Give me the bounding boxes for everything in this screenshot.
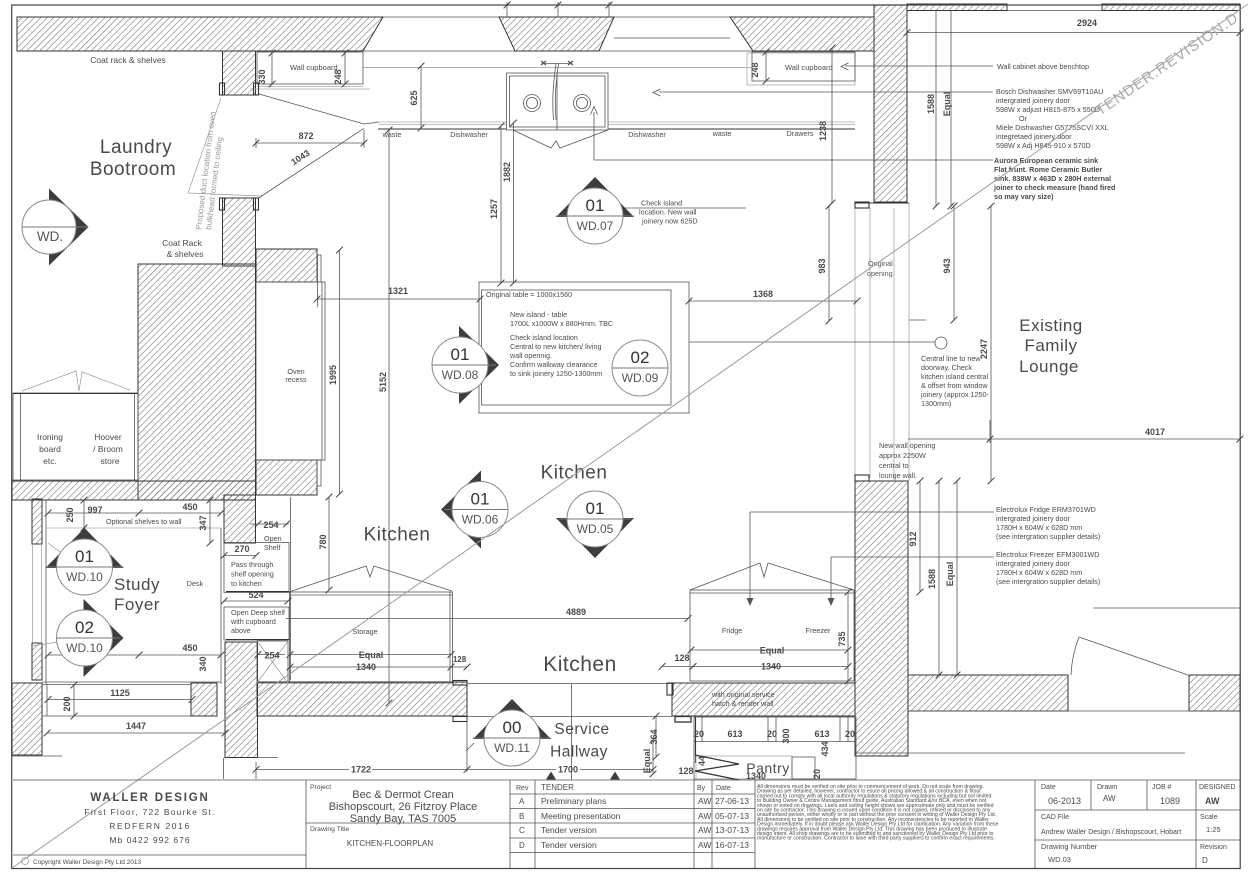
svg-text:Family: Family	[1024, 336, 1077, 355]
svg-text:WD.09: WD.09	[622, 371, 659, 385]
svg-text:248: 248	[333, 69, 343, 84]
svg-text:598W x Adj H845-910 x 570D: 598W x Adj H845-910 x 570D	[996, 141, 1091, 150]
svg-text:434: 434	[820, 741, 830, 756]
svg-text:Wall cabinet above benchtop: Wall cabinet above benchtop	[997, 62, 1089, 71]
svg-text:Meeting presentation: Meeting presentation	[541, 811, 621, 821]
svg-text:Equal: Equal	[760, 646, 785, 656]
svg-text:1300mm): 1300mm)	[921, 399, 951, 408]
svg-text:Pass through: Pass through	[231, 560, 273, 569]
svg-text:1447: 1447	[126, 721, 146, 731]
svg-text:330: 330	[257, 69, 267, 84]
svg-text:128: 128	[674, 653, 689, 663]
svg-text:997: 997	[87, 505, 102, 515]
svg-text:WD.11: WD.11	[494, 741, 530, 755]
svg-text:to sink joinery 1250-1300mm: to sink joinery 1250-1300mm	[510, 369, 602, 378]
svg-text:300: 300	[781, 728, 791, 743]
svg-text:20: 20	[694, 729, 704, 739]
svg-text:Drawn: Drawn	[1097, 784, 1117, 791]
svg-text:hatch & render wall: hatch & render wall	[712, 699, 774, 708]
svg-text:Service: Service	[554, 721, 609, 738]
svg-text:(see intergration supplier det: (see intergration supplier details)	[996, 577, 1100, 586]
svg-text:Drawing Number: Drawing Number	[1041, 842, 1098, 851]
svg-text:2924: 2924	[1077, 18, 1097, 28]
svg-text:1700: 1700	[558, 765, 578, 775]
svg-text:1780H x 604W x 628D mm: 1780H x 604W x 628D mm	[996, 523, 1082, 532]
svg-text:01: 01	[471, 490, 490, 509]
svg-text:integretaed joinery door: integretaed joinery door	[996, 132, 1072, 141]
svg-text:Bosch Dishwasher SMV69T10AU: Bosch Dishwasher SMV69T10AU	[996, 87, 1103, 96]
svg-text:Copyright Waller Design Pty Lt: Copyright Waller Design Pty Ltd 2013	[33, 859, 142, 866]
svg-text:4889: 4889	[566, 607, 586, 617]
svg-text:WD.08: WD.08	[442, 368, 479, 382]
svg-text:Foyer: Foyer	[114, 595, 160, 614]
svg-text:Bec & Dermot Crean: Bec & Dermot Crean	[352, 789, 453, 801]
svg-text:Hoover: Hoover	[94, 432, 122, 442]
svg-text:AW: AW	[698, 811, 711, 821]
svg-text:WD.10: WD.10	[66, 570, 103, 584]
svg-text:Electrolux Fridge ERM3701WD: Electrolux Fridge ERM3701WD	[996, 505, 1096, 514]
svg-text:store: store	[101, 456, 120, 466]
svg-text:254: 254	[264, 651, 279, 661]
svg-text:Date: Date	[716, 785, 731, 792]
svg-text:Tender version: Tender version	[541, 840, 597, 850]
svg-text:Ironing: Ironing	[37, 432, 63, 442]
svg-text:waste: waste	[382, 130, 402, 139]
svg-text:Check island location: Check island location	[510, 333, 578, 342]
svg-text:Open: Open	[264, 534, 282, 543]
svg-text:1780H x 604W x 628D mm: 1780H x 604W x 628D mm	[996, 568, 1082, 577]
svg-text:364: 364	[649, 729, 659, 744]
svg-text:Revision: Revision	[1200, 844, 1227, 851]
svg-text:780: 780	[318, 534, 328, 549]
svg-text:with original service: with original service	[711, 690, 775, 699]
svg-text:Optional shelves to wall: Optional shelves to wall	[106, 517, 182, 526]
svg-text:Check island: Check island	[641, 199, 682, 208]
svg-text:Flat frunt. Rome Ceramic Butle: Flat frunt. Rome Ceramic Butler	[994, 165, 1102, 174]
svg-text:WD.03: WD.03	[1048, 855, 1071, 864]
svg-text:Drawing Title: Drawing Title	[310, 826, 350, 833]
svg-text:1125: 1125	[110, 688, 130, 698]
svg-text:Kitchen: Kitchen	[543, 653, 617, 676]
svg-text:Freezer: Freezer	[806, 626, 831, 635]
svg-text:Bishopscourt, 26 Fitzroy Place: Bishopscourt, 26 Fitzroy Place	[329, 801, 478, 813]
svg-text:By: By	[697, 785, 706, 792]
svg-text:so may vary size): so may vary size)	[994, 192, 1054, 201]
svg-text:AW: AW	[1205, 796, 1220, 806]
svg-text:manufacture or construction. C: manufacture or construction. Contractor …	[757, 836, 995, 842]
svg-text:1:25: 1:25	[1206, 825, 1221, 834]
svg-text:Date: Date	[1041, 784, 1056, 791]
svg-text:128: 128	[678, 766, 693, 776]
svg-text:01: 01	[586, 196, 605, 215]
svg-text:Equal: Equal	[359, 650, 384, 660]
svg-text:Bootroom: Bootroom	[90, 159, 176, 180]
svg-text:983: 983	[817, 258, 827, 273]
svg-text:912: 912	[908, 531, 918, 546]
svg-text:A: A	[519, 797, 525, 806]
svg-text:Drawers: Drawers	[787, 129, 814, 138]
svg-text:270: 270	[234, 544, 249, 554]
svg-text:524: 524	[248, 590, 263, 600]
svg-text:Tender version: Tender version	[541, 825, 597, 835]
svg-text:REDFERN 2016: REDFERN 2016	[109, 821, 191, 831]
svg-text:01: 01	[586, 499, 605, 518]
svg-text:shelf opening: shelf opening	[231, 570, 274, 579]
svg-text:1340: 1340	[356, 662, 376, 672]
svg-text:05-07-13: 05-07-13	[715, 811, 749, 821]
svg-text:(see intergration supplier det: (see intergration supplier details)	[996, 532, 1100, 541]
svg-text:06-2013: 06-2013	[1048, 796, 1081, 806]
svg-text:Rev: Rev	[516, 785, 529, 792]
svg-text:Project: Project	[310, 784, 331, 791]
svg-text:& offset from window: & offset from window	[921, 381, 988, 390]
svg-text:Coat Rack: Coat Rack	[162, 238, 202, 248]
svg-text:wall opennig.: wall opennig.	[509, 351, 552, 360]
svg-text:00: 00	[503, 718, 522, 737]
svg-text:Fridge: Fridge	[722, 626, 742, 635]
svg-text:Study: Study	[114, 575, 160, 594]
svg-text:Open Deep shelf: Open Deep shelf	[231, 608, 285, 617]
svg-text:Pantry: Pantry	[746, 760, 789, 776]
svg-text:613: 613	[814, 729, 829, 739]
svg-text:Existing: Existing	[1019, 316, 1083, 335]
svg-text:347: 347	[198, 515, 208, 530]
svg-text:Dishwasher: Dishwasher	[628, 130, 666, 139]
svg-text:etc.: etc.	[43, 456, 57, 466]
svg-text:board: board	[39, 444, 61, 454]
svg-text:01: 01	[451, 345, 470, 364]
svg-text:Lounge: Lounge	[1019, 357, 1079, 376]
svg-text:Preliminary plans: Preliminary plans	[541, 796, 606, 806]
svg-text:340: 340	[198, 656, 208, 671]
svg-text:AW: AW	[698, 840, 711, 850]
svg-text:1995: 1995	[328, 365, 338, 385]
svg-text:D: D	[1202, 856, 1208, 865]
svg-text:WD.: WD.	[37, 229, 63, 244]
svg-text:872: 872	[298, 131, 313, 141]
svg-text:Dishwasher: Dishwasher	[450, 130, 488, 139]
svg-text:New wall opening: New wall opening	[879, 441, 935, 450]
svg-text:kitchen island central: kitchen island central	[921, 372, 989, 381]
svg-text:D: D	[519, 841, 525, 850]
svg-text:WALLER DESIGN: WALLER DESIGN	[90, 792, 209, 804]
svg-text:New island - table: New island - table	[510, 310, 567, 319]
svg-text:44: 44	[697, 756, 707, 766]
svg-text:5152: 5152	[378, 372, 388, 392]
svg-text:JOB #: JOB #	[1152, 784, 1172, 791]
svg-text:Sandy Bay, TAS 7005: Sandy Bay, TAS 7005	[350, 813, 456, 825]
svg-text:16-07-13: 16-07-13	[715, 840, 749, 850]
svg-text:with cupboard: with cupboard	[230, 617, 276, 626]
svg-text:1588: 1588	[926, 94, 936, 114]
svg-text:Equal: Equal	[942, 92, 952, 117]
svg-text:1257: 1257	[489, 199, 499, 219]
svg-text:approx 2250W: approx 2250W	[879, 451, 926, 460]
svg-text:1089: 1089	[1160, 796, 1180, 806]
svg-text:doorway. Check: doorway. Check	[921, 363, 972, 372]
svg-text:13-07-13: 13-07-13	[715, 825, 749, 835]
svg-text:TENDER: TENDER	[541, 783, 574, 792]
svg-text:250: 250	[65, 507, 75, 522]
svg-text:Equal: Equal	[642, 749, 652, 774]
svg-text:central to: central to	[879, 461, 909, 470]
svg-text:joinery (approx 1250-: joinery (approx 1250-	[920, 390, 990, 399]
svg-text:450: 450	[182, 643, 197, 653]
svg-text:opening: opening	[867, 269, 893, 278]
svg-text:Kitchen: Kitchen	[541, 463, 608, 484]
svg-text:DESIGNED: DESIGNED	[1199, 784, 1236, 791]
svg-text:128: 128	[453, 655, 467, 664]
svg-text:02: 02	[75, 618, 94, 637]
svg-text:Mb 0422 992 676: Mb 0422 992 676	[109, 835, 190, 845]
svg-text:20: 20	[812, 769, 822, 779]
svg-text:Miele Dishwasher G5775SCVI XXL: Miele Dishwasher G5775SCVI XXL	[996, 123, 1109, 132]
svg-text:613: 613	[727, 729, 742, 739]
svg-text:Coat rack & shelves: Coat rack & shelves	[90, 55, 166, 65]
svg-text:First Floor, 722 Bourke St.: First Floor, 722 Bourke St.	[84, 807, 215, 817]
svg-text:1321: 1321	[388, 286, 408, 296]
svg-text:joinery now 625D: joinery now 625D	[641, 217, 698, 226]
svg-text:Aurora European ceramic sink: Aurora European ceramic sink	[994, 156, 1098, 165]
svg-text:WD.10: WD.10	[66, 641, 103, 655]
svg-text:Equal: Equal	[945, 562, 955, 587]
svg-text:AW: AW	[698, 825, 711, 835]
svg-text:Laundry: Laundry	[100, 137, 172, 158]
svg-text:Electrolux Freezer EFM3001WD: Electrolux Freezer EFM3001WD	[996, 550, 1099, 559]
svg-text:joiner to check measure (hand: joiner to check measure (hand fired	[993, 183, 1115, 192]
svg-text:Confirm walkway clearance: Confirm walkway clearance	[510, 360, 597, 369]
svg-text:WD.07: WD.07	[577, 219, 614, 233]
svg-text:Kitchen: Kitchen	[364, 525, 431, 546]
svg-text:625: 625	[409, 90, 419, 105]
svg-text:above: above	[231, 626, 251, 635]
svg-text:02: 02	[631, 348, 650, 367]
svg-text:943: 943	[942, 258, 952, 273]
svg-text:Andrew Waller Design / Bishops: Andrew Waller Design / Bishopscourt, Hob…	[1041, 829, 1181, 836]
svg-text:Wall cupboard: Wall cupboard	[290, 63, 338, 72]
svg-text:200: 200	[62, 696, 72, 711]
svg-text:waste: waste	[712, 129, 732, 138]
svg-text:1340: 1340	[761, 662, 781, 672]
svg-text:01: 01	[75, 547, 94, 566]
svg-text:Central line to new: Central line to new	[921, 354, 981, 363]
svg-text:intergrated joinery door: intergrated joinery door	[996, 514, 1071, 523]
svg-text:recess: recess	[285, 375, 307, 384]
svg-text:Hallway: Hallway	[550, 744, 608, 761]
svg-text:WD.05: WD.05	[577, 522, 614, 536]
svg-text:WD.06: WD.06	[462, 513, 499, 527]
svg-text:sink. 838W x 463D x 280H exter: sink. 838W x 463D x 280H external	[994, 174, 1111, 183]
svg-text:450: 450	[182, 502, 197, 512]
svg-text:Central to new kitchen/ living: Central to new kitchen/ living	[510, 342, 602, 351]
svg-text:Original table = 1000x1560: Original table = 1000x1560	[486, 290, 572, 299]
svg-text:C: C	[519, 826, 525, 835]
svg-text:20: 20	[845, 729, 855, 739]
svg-text:Storage: Storage	[352, 627, 377, 636]
svg-text:& shelves: & shelves	[167, 249, 204, 259]
svg-text:/ Broom: / Broom	[93, 444, 123, 454]
svg-text:to kitchen: to kitchen	[231, 579, 262, 588]
svg-text:254: 254	[263, 520, 278, 530]
svg-text:4017: 4017	[1145, 427, 1165, 437]
svg-text:1700L x1000W x 880Hmm. TBC: 1700L x1000W x 880Hmm. TBC	[510, 319, 613, 328]
svg-text:1368: 1368	[753, 289, 773, 299]
svg-text:1882: 1882	[502, 162, 512, 182]
svg-text:AW: AW	[1103, 794, 1116, 803]
svg-text:Scale: Scale	[1200, 814, 1218, 821]
svg-text:Wall cupboard: Wall cupboard	[785, 63, 833, 72]
svg-text:1588: 1588	[927, 569, 937, 589]
svg-text:27-06-13: 27-06-13	[715, 796, 749, 806]
svg-text:Shelf: Shelf	[264, 543, 280, 552]
svg-text:20: 20	[767, 729, 777, 739]
svg-text:location. New wall: location. New wall	[639, 208, 697, 217]
svg-text:intergrated joinery door: intergrated joinery door	[996, 96, 1071, 105]
svg-text:Or: Or	[1019, 114, 1028, 123]
svg-text:lounge wall.: lounge wall.	[879, 471, 917, 480]
svg-text:CAD File: CAD File	[1041, 814, 1069, 821]
svg-text:intergrated joinery door: intergrated joinery door	[996, 559, 1071, 568]
svg-text:598W x adjust H815-875 x 550D: 598W x adjust H815-875 x 550D	[996, 105, 1100, 114]
svg-text:Desk: Desk	[187, 579, 204, 588]
svg-text:KITCHEN-FLOORPLAN: KITCHEN-FLOORPLAN	[347, 839, 433, 848]
svg-text:248: 248	[750, 62, 760, 77]
svg-text:735: 735	[837, 631, 847, 646]
svg-text:B: B	[519, 812, 524, 821]
svg-text:AW: AW	[698, 796, 711, 806]
svg-text:1722: 1722	[351, 765, 371, 775]
svg-text:1238: 1238	[818, 121, 828, 141]
